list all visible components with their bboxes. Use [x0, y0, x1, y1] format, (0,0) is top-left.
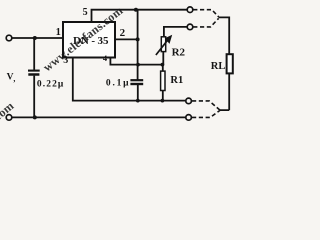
svg-text:2: 2: [120, 27, 126, 39]
svg-text:0.22μ: 0.22μ: [37, 79, 65, 89]
svg-text:RL: RL: [211, 61, 226, 72]
svg-text:R1: R1: [170, 75, 183, 86]
svg-text:R2: R2: [172, 47, 186, 59]
svg-text:4: 4: [103, 53, 108, 63]
svg-text:5: 5: [83, 7, 88, 18]
svg-text:0.1μ: 0.1μ: [106, 79, 130, 89]
svg-text:,: ,: [13, 75, 15, 84]
svg-text:1: 1: [56, 27, 61, 38]
